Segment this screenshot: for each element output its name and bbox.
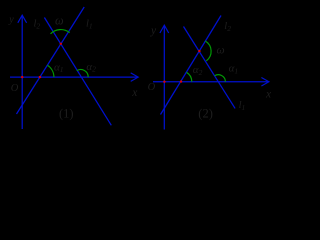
red dot: origin <box>163 81 165 83</box>
line l2 (descending) <box>44 18 111 126</box>
angle arc alpha2 at right axis crossing <box>77 70 88 78</box>
svg-text:y: y <box>8 14 14 25</box>
angle arc omega at crossing P1 <box>51 30 70 34</box>
svg-text:ω: ω <box>217 45 225 57</box>
svg-text:O: O <box>148 82 156 93</box>
angle arc alpha1 at right axis crossing <box>215 75 226 82</box>
x-axis <box>153 81 269 83</box>
svg-text:x: x <box>265 89 272 101</box>
svg-text:(2): (2) <box>198 106 213 120</box>
y-axis <box>163 26 165 130</box>
angle arc omega at crossing P2 (opens right) <box>205 41 211 61</box>
y-axis arrowhead <box>160 25 169 33</box>
red dot: crossing P2 <box>198 50 200 52</box>
line l1 (ascending) <box>17 7 85 114</box>
angle arc alpha1 at left axis crossing <box>47 65 54 77</box>
angle arc alpha2 at left axis crossing <box>187 72 192 81</box>
svg-text:ω: ω <box>55 13 64 27</box>
math figure: two coordinate-plane panels showing angle omega between lines l1 and l2 <box>0 0 282 138</box>
x-axis <box>10 76 138 78</box>
line l2 (ascending) <box>161 16 222 115</box>
svg-text:x: x <box>131 87 138 99</box>
red dot: origin <box>21 76 23 78</box>
red dot: crossing P1 <box>60 43 62 45</box>
svg-text:O: O <box>11 83 19 94</box>
red dot: l2 x-axis crossing <box>180 80 182 82</box>
red dot: l1 x-axis crossing <box>39 76 41 78</box>
svg-text:y: y <box>150 25 157 37</box>
x-axis arrowhead <box>261 78 269 87</box>
svg-text:(1): (1) <box>59 107 74 121</box>
line l1 (descending) <box>184 27 236 109</box>
x-axis arrowhead <box>131 73 139 82</box>
y-axis arrowhead <box>18 15 27 23</box>
y-axis <box>21 16 23 130</box>
